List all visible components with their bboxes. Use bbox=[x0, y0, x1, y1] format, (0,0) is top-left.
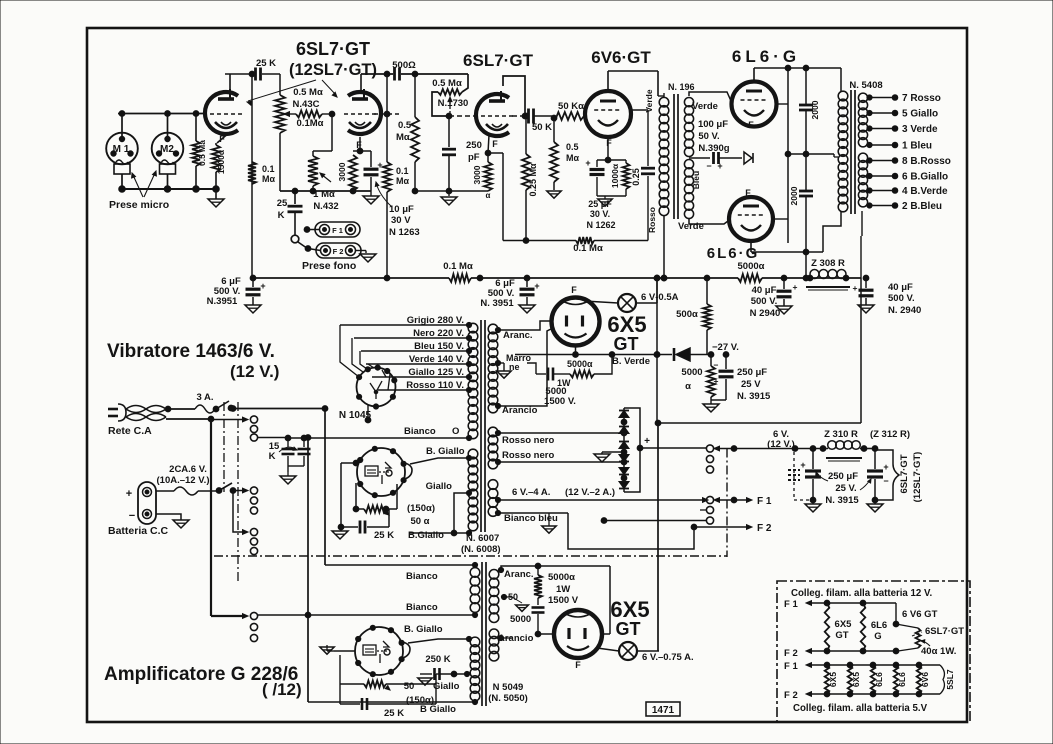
pointer 10uF bbox=[375, 182, 392, 207]
terminal circle row2 bbox=[250, 487, 257, 494]
wire 6V6 grid bbox=[585, 115, 586, 117]
label 5000 ohm bias bbox=[681, 367, 702, 392]
label 100uF 50V N.3909 bbox=[698, 119, 730, 154]
svg-text:40α 1W.: 40α 1W. bbox=[921, 646, 956, 657]
svg-text:6SL7·GT: 6SL7·GT bbox=[925, 626, 964, 637]
capacitor 6uF second bbox=[520, 278, 540, 305]
svg-text:F: F bbox=[571, 285, 577, 295]
svg-text:Rete C.A: Rete C.A bbox=[108, 425, 152, 437]
svg-text:6V6·GT: 6V6·GT bbox=[591, 48, 651, 67]
svg-text:100 μF: 100 μF bbox=[698, 119, 728, 130]
vibrator unit bbox=[357, 446, 412, 498]
svg-text:+: + bbox=[883, 462, 888, 472]
label B.Giallo mid bbox=[404, 624, 443, 635]
wire lamp lower leads bbox=[597, 648, 659, 651]
label Bianco bleu bbox=[504, 513, 558, 524]
svg-text:K: K bbox=[269, 451, 276, 462]
capacitor 2000 upper bbox=[799, 105, 813, 110]
output tap 5 Giallo bbox=[867, 109, 938, 120]
svg-text:6 B.Giallo: 6 B.Giallo bbox=[902, 172, 948, 183]
label Z.310R bbox=[824, 429, 910, 440]
svg-text:250: 250 bbox=[466, 140, 482, 151]
capacitor 50K coupling bbox=[529, 109, 553, 124]
arrow prese micro right bbox=[144, 171, 156, 197]
svg-text:6 V.–0.75 A.: 6 V.–0.75 A. bbox=[642, 652, 694, 663]
resistor cap 5000 1W bbox=[527, 355, 612, 381]
svg-text:K: K bbox=[278, 210, 285, 221]
legend label 6SL7-GT bbox=[912, 626, 964, 637]
resistor 0.1M wiper bbox=[284, 111, 335, 118]
svg-text:1471: 1471 bbox=[652, 705, 675, 716]
wire tube1 cathode bbox=[216, 132, 230, 145]
label Verde top bbox=[692, 101, 718, 112]
wire battery bus bbox=[233, 488, 248, 493]
svg-text:F: F bbox=[606, 138, 612, 148]
ground 250K bbox=[418, 678, 432, 685]
label 1500 ohm vertical bbox=[216, 149, 226, 174]
svg-text:0.25: 0.25 bbox=[631, 168, 641, 186]
svg-text:Bianco: Bianco bbox=[406, 571, 438, 582]
capacitor 25K lower bbox=[340, 684, 436, 710]
wire mic top bus bbox=[118, 111, 205, 141]
capacitor 250pF bbox=[442, 116, 456, 191]
label 50 Ka bbox=[558, 101, 584, 112]
svg-text:N. 2940: N. 2940 bbox=[888, 305, 921, 316]
label F V2 bbox=[492, 139, 498, 149]
svg-text:6L6·G: 6L6·G bbox=[732, 47, 800, 66]
svg-text:O: O bbox=[452, 426, 459, 437]
svg-text:Bianco bleu: Bianco bleu bbox=[504, 513, 558, 524]
label B.Giallo bottom bbox=[408, 530, 444, 541]
svg-text:40 μF: 40 μF bbox=[888, 282, 913, 293]
capacitor 500 coupling bbox=[395, 68, 400, 81]
wire B+ rail bbox=[250, 275, 861, 281]
label 150 50 ohm bbox=[407, 503, 435, 527]
svg-text:1000α: 1000α bbox=[610, 163, 620, 188]
resistor 5000 bias bbox=[707, 355, 715, 401]
wire 6V 4A line bbox=[495, 497, 708, 502]
terminal circle fil bbox=[706, 496, 713, 503]
arrow prese micro left bbox=[132, 173, 143, 197]
wire B.Giallo bottom bbox=[410, 530, 472, 536]
wire stack bracket bbox=[624, 408, 643, 492]
wire stack ground bbox=[602, 451, 624, 453]
label F 6L6 lower bbox=[745, 188, 751, 198]
wire V2 plate out bbox=[523, 113, 529, 119]
output tap 6 B.Giallo bbox=[867, 172, 948, 183]
label 0.1Ma wiper bbox=[297, 118, 324, 129]
label F 6L6 upper bbox=[748, 120, 754, 130]
svg-text:6 V.–4 A.: 6 V.–4 A. bbox=[512, 487, 550, 498]
svg-text:30 V.: 30 V. bbox=[590, 209, 610, 219]
svg-text:6 V6 GT: 6 V6 GT bbox=[902, 609, 938, 620]
wire B.Giallo mid bbox=[408, 636, 472, 643]
svg-text:α: α bbox=[486, 191, 491, 200]
svg-text:Giallo 125 V.: Giallo 125 V. bbox=[408, 367, 464, 378]
svg-text:3 Verde: 3 Verde bbox=[902, 124, 938, 135]
svg-text:6X5: 6X5 bbox=[828, 672, 838, 687]
ground prese fono bbox=[360, 254, 376, 262]
label 50 150 bbox=[404, 681, 434, 706]
legend box bbox=[777, 581, 970, 722]
wire row1 to bianco bbox=[258, 437, 288, 439]
capacitor 25K fono bbox=[288, 188, 303, 235]
svg-text:Mα: Mα bbox=[396, 132, 410, 143]
wire V2 plate loop bbox=[503, 76, 528, 119]
label 6V-0.5A bbox=[641, 292, 679, 303]
wire center tap out bbox=[788, 154, 834, 157]
tap 50 mid bbox=[501, 594, 512, 599]
label F tube1 cathode bbox=[219, 134, 225, 144]
label 3A bbox=[196, 392, 213, 403]
wire battery plus bbox=[156, 490, 174, 492]
svg-text:2000: 2000 bbox=[789, 186, 799, 205]
label Verde bottom bbox=[678, 221, 704, 232]
legend filament 6X5 6V bbox=[824, 662, 838, 697]
terminal circle row1 bbox=[250, 416, 257, 423]
wire 6L6 lower plate bbox=[751, 241, 809, 255]
label F2 bbox=[757, 523, 772, 534]
terminal circle row3 bbox=[250, 528, 257, 535]
label 0.5 Ma N.43C bbox=[293, 87, 323, 110]
transformer N.5408 secondary top bbox=[858, 93, 867, 147]
label Aranc lower bbox=[504, 569, 534, 580]
capacitor 40uF first bbox=[777, 275, 798, 306]
resistor 0.5M grid return bbox=[550, 115, 558, 190]
wire 2000 caps vertical bbox=[803, 68, 809, 281]
wires selector to taps bbox=[340, 325, 390, 390]
svg-text:Verde: Verde bbox=[692, 101, 718, 112]
output tap 4 B.Verde bbox=[867, 186, 948, 197]
output tap 2 B.Bleu bbox=[867, 201, 942, 212]
switch battery bbox=[220, 483, 236, 493]
capacitor 25uF cathode bbox=[585, 158, 604, 196]
svg-text:Prese fono: Prese fono bbox=[302, 260, 356, 272]
svg-text:+: + bbox=[260, 281, 265, 291]
wire sec top to 6L6 grid bbox=[689, 92, 731, 101]
ground 6uF first bbox=[245, 305, 261, 313]
ground 6uF second bbox=[519, 305, 535, 313]
svg-text:2CA.6 V.: 2CA.6 V. bbox=[169, 464, 207, 475]
label Giallo lower bbox=[433, 681, 460, 692]
svg-text:6SL7·GT: 6SL7·GT bbox=[899, 454, 910, 493]
svg-text:50 K: 50 K bbox=[532, 122, 552, 133]
wire selector bottom bbox=[365, 405, 371, 423]
svg-text:Mα: Mα bbox=[262, 174, 275, 184]
svg-text:F 1: F 1 bbox=[757, 496, 772, 507]
wire stage2 top bus bbox=[361, 71, 468, 77]
svg-text:Giallo: Giallo bbox=[426, 481, 453, 492]
wire battery down bbox=[233, 491, 248, 535]
wire 6X5 cathode bbox=[575, 346, 577, 355]
wire sec bottom to 6L6 grid bbox=[689, 218, 728, 224]
svg-text:F 1: F 1 bbox=[332, 226, 343, 235]
transformer N.5049 secondary lower bbox=[489, 629, 499, 661]
label N.432 bbox=[313, 201, 338, 212]
label 0.1 Ma series bbox=[443, 261, 473, 272]
wire Rosso nero 1 bbox=[495, 430, 626, 436]
label 6L6-G top bbox=[732, 47, 800, 66]
svg-text:−: − bbox=[129, 510, 135, 522]
svg-text:25 μF: 25 μF bbox=[588, 199, 612, 209]
svg-text:50: 50 bbox=[404, 681, 415, 692]
svg-text:B Giallo: B Giallo bbox=[420, 704, 456, 715]
wire V1b cathode bbox=[353, 137, 371, 154]
tube 6X5 second bbox=[554, 610, 602, 658]
choke Z.310R bbox=[826, 441, 862, 461]
label F1 bbox=[757, 496, 772, 507]
microphone jack M1 bbox=[106, 133, 138, 174]
svg-text:0.5 Ma: 0.5 Ma bbox=[197, 140, 207, 166]
label N.196 bbox=[668, 82, 695, 92]
ground heater cap 1 bbox=[805, 500, 821, 512]
resistor 1500 ohm cathode bbox=[212, 145, 220, 189]
svg-text:Mα: Mα bbox=[396, 176, 409, 186]
svg-text:8 B.Rosso: 8 B.Rosso bbox=[902, 156, 951, 167]
brace 6SL7 heater bbox=[875, 450, 899, 500]
svg-text:5000: 5000 bbox=[510, 614, 531, 625]
wire 6V6 plate top bbox=[608, 71, 658, 91]
ground grid return bbox=[547, 191, 561, 198]
ground buffer caps bbox=[280, 472, 296, 484]
wire vib left bbox=[341, 460, 359, 527]
label 50 K bbox=[532, 122, 552, 133]
label Rosso nero 2 bbox=[502, 450, 554, 461]
svg-text:Colleg. filam. alla batteria 1: Colleg. filam. alla batteria 12 V. bbox=[791, 588, 933, 599]
capacitor 250uF heater 2 bbox=[867, 449, 889, 503]
terminal circle row1 bbox=[250, 434, 257, 441]
tube V1b 6SL7 half bbox=[344, 89, 381, 134]
label Rosso nero 1 bbox=[502, 435, 554, 446]
wire x308 vertical bbox=[305, 435, 311, 702]
ground vib bbox=[332, 527, 348, 539]
label 15 K bbox=[269, 441, 280, 462]
wire screens vertical bbox=[773, 68, 791, 243]
terminal circle heater bbox=[706, 455, 713, 462]
capacitor 25K vib bbox=[338, 509, 389, 534]
label Rosso vertical bbox=[647, 207, 657, 233]
wire Bianco bleu bbox=[495, 510, 694, 549]
transformer N.5408 secondary bottom bbox=[858, 153, 867, 207]
svg-text:3000: 3000 bbox=[472, 165, 482, 184]
potentiometer 0.5Ma N.1730 bbox=[432, 74, 468, 116]
label 250 pF bbox=[466, 140, 482, 163]
svg-text:25 K: 25 K bbox=[384, 708, 404, 719]
terminal circle row2 bbox=[250, 497, 257, 504]
label F 6V6 bbox=[606, 138, 612, 148]
svg-text:3000: 3000 bbox=[337, 162, 347, 181]
svg-text:Z 308 R: Z 308 R bbox=[811, 258, 845, 269]
label 3000 V2 bbox=[472, 165, 491, 200]
svg-text:+: + bbox=[800, 460, 805, 470]
svg-text:25 V.: 25 V. bbox=[835, 483, 856, 494]
legend title 12V bbox=[791, 588, 933, 599]
svg-text:500 V.: 500 V. bbox=[751, 296, 778, 307]
label 5000 1500V bbox=[544, 386, 576, 407]
wire 6V6 cathode bbox=[597, 137, 626, 163]
legend label 40ohm bbox=[921, 640, 956, 657]
wire primary to B+ bbox=[661, 215, 667, 281]
svg-text:+: + bbox=[717, 161, 722, 171]
label Arancio bbox=[502, 405, 538, 416]
svg-text:4 B.Verde: 4 B.Verde bbox=[902, 186, 948, 197]
label 40uF 500V N.2940 second bbox=[888, 282, 921, 316]
transformer N.5408 core bbox=[851, 90, 855, 214]
svg-text:N 1263: N 1263 bbox=[389, 227, 420, 238]
svg-text:N.1730: N.1730 bbox=[438, 98, 469, 109]
svg-text:2000: 2000 bbox=[810, 100, 820, 119]
tube 6L6 lower bbox=[729, 197, 773, 241]
lamp 6V-0.75A bbox=[619, 642, 637, 660]
label 250uF 25V N.3915 heater bbox=[825, 471, 859, 506]
transformer N.5049 secondary upper bbox=[489, 570, 499, 623]
svg-text:6L6: 6L6 bbox=[871, 620, 887, 631]
label 25uF 30V N1262 bbox=[586, 199, 615, 230]
output tap 7 Rosso bbox=[867, 93, 941, 104]
svg-text:B. Giallo: B. Giallo bbox=[404, 624, 443, 635]
svg-text:N.43C: N.43C bbox=[293, 99, 320, 110]
svg-text:( /12): ( /12) bbox=[262, 680, 302, 699]
svg-text:5000α: 5000α bbox=[548, 572, 575, 583]
svg-text:Arancio: Arancio bbox=[498, 633, 534, 644]
svg-text:6X5: 6X5 bbox=[835, 619, 853, 630]
terminal circle fil bbox=[706, 517, 713, 524]
svg-text:25 K: 25 K bbox=[374, 530, 394, 541]
resistor 500 ohm bias bbox=[703, 278, 711, 355]
svg-text:α: α bbox=[685, 381, 691, 392]
svg-text:−: − bbox=[883, 476, 888, 486]
svg-text:Aranc.: Aranc. bbox=[503, 330, 533, 341]
svg-text:Giallo: Giallo bbox=[433, 681, 460, 692]
svg-text:N. 5408: N. 5408 bbox=[849, 80, 882, 91]
label F 6X5 first bbox=[571, 285, 577, 295]
svg-text:N 5049: N 5049 bbox=[493, 682, 524, 693]
svg-text:Bleu: Bleu bbox=[691, 171, 701, 189]
svg-text:G: G bbox=[874, 631, 881, 642]
legend filament 6X5 bbox=[825, 603, 830, 651]
vibrator unit lower bbox=[355, 625, 410, 677]
chassis dash-dot left a bbox=[223, 402, 225, 492]
ground bias bbox=[703, 400, 719, 412]
tube 6L6 upper bbox=[732, 82, 777, 127]
label N.5049 bbox=[488, 682, 528, 704]
ground mic bus bbox=[208, 189, 224, 207]
wire 6V rail bbox=[640, 446, 878, 452]
chassis dash-dot horizontal bbox=[214, 555, 727, 557]
svg-text:pF: pF bbox=[468, 152, 480, 163]
svg-text:500 V.: 500 V. bbox=[888, 293, 915, 304]
svg-text:+: + bbox=[585, 158, 590, 168]
svg-text:Prese micro: Prese micro bbox=[109, 199, 169, 211]
wire row1 arrow bbox=[211, 417, 248, 422]
tap Aranc lower bbox=[498, 566, 610, 573]
wire grid leak V2 bbox=[386, 74, 388, 162]
pointer 250uF right bbox=[860, 479, 871, 490]
svg-text:6V6: 6V6 bbox=[920, 672, 930, 687]
label Prese micro bbox=[109, 199, 169, 211]
svg-text:250 K: 250 K bbox=[425, 654, 450, 665]
label 0.1 Ma feedback bbox=[573, 243, 603, 254]
svg-text:7 Rosso: 7 Rosso bbox=[902, 93, 941, 104]
pot wiper arrow bbox=[446, 97, 452, 119]
mains plug bbox=[108, 404, 166, 421]
label 6uF 500V N.3951 first bbox=[207, 276, 241, 307]
svg-text:0.5 Mα: 0.5 Mα bbox=[293, 87, 323, 98]
transformer N.6007 primary lower bbox=[468, 449, 478, 531]
dashed battery option bbox=[788, 452, 813, 500]
svg-text:0.5: 0.5 bbox=[566, 142, 579, 152]
label N.6007 bbox=[461, 533, 501, 555]
wire mains vertical bbox=[210, 419, 212, 616]
label N.1730 bbox=[438, 98, 469, 109]
svg-text:Rosso: Rosso bbox=[647, 207, 657, 233]
label Amplificatore bbox=[104, 664, 298, 685]
capacitor 6uF first bbox=[246, 278, 266, 305]
svg-text:Rosso nero: Rosso nero bbox=[502, 435, 554, 446]
svg-text:250 μF: 250 μF bbox=[828, 471, 858, 482]
svg-text:0.5: 0.5 bbox=[398, 120, 412, 131]
resistor 50 vib lower bbox=[340, 655, 441, 690]
svg-text:0.1: 0.1 bbox=[396, 166, 409, 176]
transformer N.6007 primary upper bbox=[468, 323, 478, 438]
svg-text:Batteria C.C: Batteria C.C bbox=[108, 525, 169, 537]
primary tap Bleu 150 V. bbox=[361, 341, 472, 354]
switch contact fono bbox=[291, 235, 311, 251]
svg-text:B. Giallo: B. Giallo bbox=[426, 446, 465, 457]
label 2000 lower bbox=[789, 186, 799, 205]
label B. Verde bbox=[612, 356, 650, 367]
label 6L6-G bottom bbox=[707, 245, 760, 262]
ground 6V6 cathode bbox=[598, 196, 612, 206]
svg-text:+: + bbox=[644, 436, 650, 447]
svg-text:0.1: 0.1 bbox=[262, 164, 275, 174]
label 6SL7-GT bbox=[296, 39, 370, 59]
svg-text:50: 50 bbox=[508, 592, 518, 602]
wire fil stubs bbox=[601, 510, 706, 523]
label Aranc. bbox=[503, 330, 533, 341]
label 25 K fono bbox=[277, 198, 288, 221]
capacitor 250K bbox=[420, 668, 470, 680]
label Verde vertical bbox=[644, 89, 654, 112]
speaker arrow symbol bbox=[744, 152, 753, 164]
wire grid-leak V1a bbox=[251, 74, 253, 278]
label Bleu vertical bbox=[691, 171, 701, 189]
label 0.5 Ma return bbox=[566, 142, 579, 163]
terminal circle row4 bbox=[250, 634, 257, 641]
wire F1 bbox=[714, 497, 752, 503]
legend label 6X5 bbox=[835, 619, 853, 641]
wire feedback bbox=[503, 237, 648, 244]
resistor 0.5M N.43C pot bbox=[275, 74, 285, 191]
svg-text:Rosso nero: Rosso nero bbox=[502, 450, 554, 461]
label 6V 4A bbox=[512, 487, 615, 498]
label Bianco O bbox=[404, 426, 459, 437]
wire mains lower bbox=[166, 416, 214, 422]
label -27V bbox=[712, 342, 739, 353]
svg-text:M2: M2 bbox=[160, 144, 174, 155]
svg-text:N.390g: N.390g bbox=[698, 143, 729, 154]
svg-text:25: 25 bbox=[277, 198, 288, 209]
box right section bbox=[654, 275, 861, 423]
wire secondary bottom down bbox=[861, 211, 862, 278]
svg-text:6 V‑0.5A: 6 V‑0.5A bbox=[641, 292, 679, 303]
wire B.Giallo tap bbox=[410, 455, 472, 464]
svg-text:Verde: Verde bbox=[678, 221, 704, 232]
wire F2 bbox=[691, 524, 752, 530]
svg-text:5000α: 5000α bbox=[567, 359, 593, 369]
tap Aranc bbox=[495, 327, 500, 332]
label Batteria C.C bbox=[108, 525, 169, 537]
